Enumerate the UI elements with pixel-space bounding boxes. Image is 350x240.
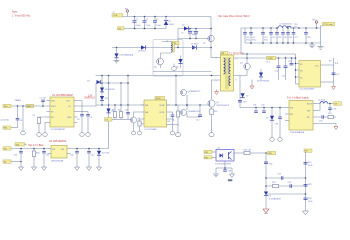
svg-text:C6: C6	[20, 120, 22, 122]
ground input	[114, 61, 120, 63]
svg-text:C27: C27	[294, 37, 297, 39]
svg-text:C26: C26	[289, 37, 292, 39]
wire fb rung 3	[266, 193, 306, 195]
wire input bus HV+	[123, 16, 212, 18]
diode D9	[266, 108, 274, 138]
svg-text:TP8: TP8	[335, 63, 338, 65]
wire T1 pri bottom to Q1	[212, 80, 221, 99]
ground Q1	[209, 133, 214, 137]
red agnd U7	[317, 124, 338, 130]
wire OUTB stub	[170, 125, 178, 127]
zener D11	[100, 88, 115, 92]
wire totem out	[187, 114, 200, 118]
svg-text:C39: C39	[288, 182, 291, 184]
svg-text:470u: 470u	[246, 40, 250, 42]
wire Q7 collector	[134, 112, 141, 117]
svg-text:C14: C14	[275, 71, 278, 73]
svg-text:VDRV: VDRV	[156, 98, 162, 100]
wire fb rail right	[305, 152, 307, 210]
tag VIN- left	[3, 126, 18, 130]
svg-text:D3: D3	[87, 81, 89, 83]
capacitor C30	[238, 101, 246, 104]
capacitor C1	[133, 17, 142, 29]
svg-text:OUTB: OUTB	[159, 112, 165, 114]
svg-text:C28: C28	[307, 37, 310, 39]
wire bias input row	[11, 148, 48, 150]
svg-text:C4: C4	[192, 31, 194, 33]
diode D4	[106, 109, 113, 113]
svg-text:US1M: US1M	[169, 24, 175, 26]
svg-text:OUTA: OUTA	[159, 104, 165, 107]
svg-text:Note:: Note:	[12, 11, 18, 14]
wire OUT pin	[78, 101, 83, 115]
svg-text:VDD: VDD	[51, 101, 56, 103]
gate drive wire	[167, 104, 210, 106]
svg-text:U1 UCC2897ARGP: U1 UCC2897ARGP	[52, 94, 73, 97]
svg-text:U2 LM5164DDA: U2 LM5164DDA	[49, 140, 67, 143]
connector J1	[112, 12, 123, 18]
wire totem pole	[186, 95, 188, 110]
svg-text:VB-: VB-	[4, 162, 7, 164]
junction fb node	[265, 152, 267, 154]
capacitor C3	[153, 17, 162, 29]
tag VBULK bias	[3, 147, 11, 151]
wire mid rail y83	[96, 82, 128, 84]
svg-text:C30: C30	[243, 102, 246, 104]
transformer T1	[216, 53, 246, 91]
svg-text:2.2uF: 2.2uF	[146, 25, 152, 27]
wire Q7 emitter	[133, 123, 135, 131]
ground C33	[278, 138, 283, 142]
svg-text:J2-1: J2-1	[266, 62, 270, 64]
svg-text:C43: C43	[91, 155, 94, 157]
resistor R25	[272, 182, 279, 187]
wire HV vertical rail	[210, 17, 212, 58]
ground U1 left b	[37, 133, 42, 137]
svg-text:1. Vmax 500 Vdc: 1. Vmax 500 Vdc	[12, 15, 31, 18]
svg-text:C35: C35	[319, 121, 322, 123]
svg-text:TP2: TP2	[118, 28, 121, 30]
wire opto emitter	[224, 161, 226, 168]
svg-text:0.1uF: 0.1uF	[136, 25, 142, 27]
wire fb rail left	[265, 153, 267, 209]
svg-text:C37: C37	[278, 174, 281, 176]
wire driver vdd riser	[175, 76, 177, 106]
IC U2 bias reg	[48, 146, 71, 163]
tag FB2	[204, 156, 216, 160]
IC U8 gate driver	[141, 96, 171, 130]
svg-text:D13 12V: D13 12V	[102, 153, 110, 155]
capacitor C17 vcc	[325, 65, 339, 82]
svg-text:C16: C16	[288, 61, 291, 63]
wire cs row	[112, 119, 128, 121]
resistor R23 divider	[304, 184, 312, 186]
svg-text:UCC27524AD: UCC27524AD	[145, 128, 158, 131]
ground V+ drop	[317, 44, 323, 49]
capacitor C27	[293, 28, 295, 33]
svg-text:TP3: TP3	[312, 20, 315, 22]
wire U6 left pins	[295, 58, 297, 84]
wire SS pin	[45, 123, 47, 133]
svg-text:VBIAS: VBIAS	[15, 99, 22, 102]
svg-text:D8 STPS3L60: D8 STPS3L60	[257, 81, 269, 83]
capacitor C28	[305, 28, 307, 33]
tag CS	[105, 118, 113, 122]
wire clamp mid	[178, 38, 209, 40]
transformer aux winding T2	[166, 41, 174, 52]
red agnd U6	[332, 82, 336, 90]
svg-text:D11 BZX84: D11 BZX84	[105, 89, 115, 91]
svg-text:D12: D12	[105, 98, 108, 100]
svg-text:5V0: 5V0	[334, 104, 337, 106]
svg-text:R5: R5	[112, 110, 114, 112]
svg-text:0-500 Vdc: 0-500 Vdc	[1, 120, 10, 122]
svg-text:TPS54560BDDA: TPS54560BDDA	[290, 131, 305, 134]
svg-text:R24: R24	[308, 198, 311, 200]
capacitor C37	[278, 174, 283, 180]
ground opto right	[228, 168, 235, 182]
transistor Q7	[128, 117, 140, 123]
wire riser x121	[120, 83, 122, 105]
capacitor C21	[250, 28, 252, 33]
svg-text:D7: D7	[246, 96, 248, 98]
svg-text:VIN-: VIN-	[4, 128, 8, 130]
testpoint TP1	[125, 9, 129, 17]
svg-text:SW: SW	[61, 149, 64, 151]
testpoint TP2	[118, 27, 125, 31]
svg-text:470u: 470u	[264, 40, 268, 42]
capacitor C25	[282, 28, 284, 33]
wire opto gnd row	[216, 167, 232, 169]
capacitor C12 gate	[196, 105, 202, 122]
ground U1 left c	[43, 133, 48, 137]
svg-text:CSD19506KCS: CSD19506KCS	[216, 105, 230, 107]
capacitor C7	[40, 98, 47, 107]
inductor L1	[278, 24, 292, 29]
wire gate row left	[96, 104, 144, 106]
svg-text:5V0: 5V0	[305, 151, 308, 153]
svg-text:D9: D9	[266, 118, 268, 120]
svg-text:10.0k: 10.0k	[308, 165, 313, 167]
wire fb rung 1	[266, 177, 306, 179]
svg-text:C1: C1	[136, 19, 138, 21]
svg-text:FB1: FB1	[205, 152, 208, 154]
zener D13	[97, 149, 110, 168]
capacitor C42	[70, 149, 79, 168]
svg-text:D10 SMAJ440A: D10 SMAJ440A	[120, 54, 134, 57]
svg-text:Q6 MMBT2907: Q6 MMBT2907	[188, 111, 201, 113]
ground U1 left a	[21, 106, 26, 135]
svg-text:Q4: Q4	[240, 63, 243, 65]
optocoupler U3	[215, 148, 234, 166]
diode D5	[188, 44, 211, 50]
diode D6 snubber	[176, 56, 183, 69]
svg-text:C8: C8	[77, 119, 79, 121]
wire aux top	[162, 42, 172, 44]
svg-text:VB+: VB+	[4, 148, 7, 150]
ground D9	[270, 138, 275, 142]
tag 5V0 sense	[304, 149, 312, 153]
wire U6 vcc rail	[325, 58, 334, 65]
tag VFB	[268, 151, 276, 155]
svg-text:470u: 470u	[252, 40, 256, 42]
transistor Q1 main switch	[208, 100, 230, 109]
red pgnd sync	[250, 80, 254, 90]
svg-text:CONN: CONN	[267, 58, 273, 60]
ground C11	[170, 131, 175, 135]
svg-text:VCC: VCC	[315, 65, 320, 67]
ground fb left red	[263, 209, 269, 214]
tag VIN left	[3, 104, 11, 108]
svg-text:C42: C42	[70, 155, 73, 157]
wire riser x128	[127, 76, 129, 106]
wire fb rung 2	[266, 185, 306, 187]
tag CONN secondary	[266, 56, 276, 63]
tag GD on box	[172, 42, 179, 46]
resistor R5	[112, 105, 117, 120]
svg-text:TP1: TP1	[125, 9, 128, 11]
junction dots input bus	[134, 16, 136, 18]
ground output rail	[309, 43, 315, 48]
ground R7	[137, 131, 142, 135]
svg-text:C5: C5	[181, 33, 183, 35]
tag VDD left	[26, 104, 34, 108]
svg-text:UVLO: UVLO	[51, 106, 57, 108]
svg-text:5-V, 1-A Bias Supply: 5-V, 1-A Bias Supply	[287, 97, 310, 100]
wire T1 pri top	[211, 57, 221, 59]
svg-text:C23: C23	[272, 37, 275, 39]
svg-text:U4: U4	[269, 196, 271, 198]
capacitor C14	[275, 58, 281, 80]
transistor Q6	[181, 110, 201, 116]
wire secondary to U7	[240, 107, 285, 109]
capacitor C10	[125, 105, 130, 120]
transistor Q3 snubber	[154, 53, 163, 69]
tag VB- bias	[3, 160, 11, 164]
capacitor C39	[288, 182, 292, 188]
wire bus left drop	[240, 28, 242, 54]
ground driver	[175, 133, 180, 137]
wire 5V out	[328, 103, 333, 105]
svg-text:SW: SW	[307, 111, 310, 113]
svg-text:C32: C32	[261, 105, 264, 107]
capacitor C26	[287, 28, 289, 33]
svg-text:TLP291(GB-TP,SE: TLP291(GB-TP,SE	[215, 163, 232, 165]
svg-text:D2: D2	[182, 25, 184, 27]
svg-text:C36: C36	[269, 164, 272, 166]
svg-text:R20: R20	[328, 113, 331, 115]
svg-text:UCC24612DBVR: UCC24612DBVR	[300, 89, 315, 91]
capacitor C35 fb	[317, 115, 326, 122]
svg-text:GD1: GD1	[16, 144, 20, 146]
red pgnd marker	[215, 90, 219, 95]
svg-text:C24: C24	[278, 37, 281, 39]
tag 5V	[334, 102, 342, 106]
svg-text:TP V+ conn: TP V+ conn	[323, 24, 332, 26]
svg-text:LM5164DDAR: LM5164DDAR	[51, 159, 64, 162]
IC U6 sync controller	[296, 61, 326, 91]
svg-text:C25: C25	[284, 37, 287, 39]
wire output bus	[241, 27, 278, 29]
wire vbias rail x108.5	[108, 76, 110, 149]
svg-text:1: 1	[216, 58, 217, 60]
capacitor C5 clamp	[181, 28, 198, 39]
wire INB stub	[170, 119, 174, 121]
wire sec rect node	[239, 76, 241, 108]
svg-text:R25: R25	[272, 182, 275, 184]
svg-text:J1: J1	[113, 12, 115, 14]
wire primary rail A	[153, 71, 212, 73]
svg-text:U3: U3	[217, 148, 219, 150]
ground snubber	[172, 64, 177, 71]
svg-text:C12: C12	[196, 120, 199, 122]
svg-text:2.2uF: 2.2uF	[156, 25, 162, 27]
wire VDD row	[11, 105, 47, 107]
svg-text:6: 6	[236, 59, 237, 61]
resistor R14	[177, 105, 180, 133]
IC U7 5V bias	[285, 101, 317, 134]
resistor R6	[118, 105, 123, 120]
svg-text:C38: C38	[228, 171, 231, 173]
capacitor C23	[270, 28, 272, 33]
testpoint TP3	[312, 20, 318, 29]
resistor R16	[234, 150, 266, 155]
svg-text:D1: D1	[169, 21, 171, 23]
diode D1	[164, 17, 174, 29]
svg-text:R16 1.0k: R16 1.0k	[244, 150, 252, 152]
tag V+ output	[323, 22, 335, 26]
resistor R24 divider	[304, 198, 313, 203]
svg-text:Q5 MMBT2222: Q5 MMBT2222	[188, 91, 201, 93]
diode D8	[257, 69, 269, 83]
wire sync fet branch	[246, 58, 248, 63]
transistor Q4 sync	[240, 63, 250, 76]
svg-text:C11: C11	[167, 121, 170, 123]
svg-text:12V: 12V	[88, 95, 93, 98]
resistor R7	[138, 119, 144, 131]
resistor R2	[33, 115, 47, 133]
svg-text:8: 8	[236, 80, 237, 82]
wire V+ drop	[320, 28, 322, 44]
ground opto left	[213, 168, 219, 177]
resistor R22 divider	[304, 162, 313, 167]
capacitor C41	[42, 149, 49, 168]
zener D2	[182, 25, 188, 31]
svg-text:R2: R2	[33, 115, 35, 117]
capacitor C24	[276, 28, 278, 33]
wire input return rail	[124, 28, 166, 30]
svg-text:R22: R22	[308, 162, 311, 164]
wire bias return	[11, 161, 21, 163]
IC U1 main controller	[47, 94, 78, 131]
svg-text:L2 10uH: L2 10uH	[318, 100, 326, 102]
ground C8	[80, 133, 85, 137]
svg-text:R6: R6	[118, 110, 120, 112]
svg-text:L1 7443551111: L1 7443551111	[279, 24, 292, 26]
diode D7	[241, 93, 249, 97]
wire vdd rail x102	[101, 76, 103, 106]
capacitor C22	[262, 28, 264, 33]
output bus capacitor bank	[243, 27, 310, 43]
svg-text:C33: C33	[275, 124, 278, 126]
tag PRI	[221, 52, 229, 56]
svg-text:C31: C31	[253, 105, 256, 107]
svg-text:GND: GND	[67, 117, 72, 119]
svg-text:C17: C17	[336, 74, 339, 76]
capacitor C20	[244, 28, 246, 33]
wire secondary node link	[241, 53, 296, 55]
capacitor C43	[87, 149, 94, 168]
transistor Q2 clamp	[203, 35, 214, 44]
svg-text:R7: R7	[142, 124, 144, 126]
resistor R30	[32, 149, 39, 168]
capacitor C32	[261, 105, 266, 113]
wire Q1 source	[211, 115, 213, 133]
capacitor C2	[143, 17, 152, 29]
capacitor C11	[167, 112, 174, 131]
svg-text:C3: C3	[156, 19, 158, 21]
svg-text:10.0k: 10.0k	[308, 201, 313, 203]
zener D12	[100, 96, 108, 100]
ground bias row	[19, 167, 102, 171]
capacitor C4 clamp	[188, 29, 198, 39]
diode D3b	[87, 80, 101, 84]
capacitor C6	[16, 106, 23, 128]
svg-text:R23: R23	[308, 184, 311, 186]
diode D10 TVS	[114, 48, 133, 61]
svg-text:3: 3	[216, 81, 217, 83]
ground C9	[86, 133, 91, 137]
svg-text:D5 ES1J: D5 ES1J	[191, 44, 199, 46]
capacitor C40	[14, 149, 23, 168]
svg-text:R13: R13	[214, 111, 217, 113]
svg-text:UCC2897ARGPT: UCC2897ARGPT	[51, 128, 67, 131]
snubber option box	[153, 40, 183, 77]
capacitor C16	[288, 58, 294, 65]
svg-text:C2: C2	[146, 19, 148, 21]
svg-text:VIN+: VIN+	[4, 106, 8, 108]
wire EN riser	[78, 83, 97, 106]
svg-text:Opt. Gate Drive Circuit, 500-V: Opt. Gate Drive Circuit, 500-V	[218, 15, 250, 18]
transistor Q5	[181, 90, 201, 96]
resistor R20 fb	[326, 113, 336, 119]
ground fb right	[303, 210, 309, 215]
svg-text:R30: R30	[36, 153, 39, 155]
junction dots output bus	[250, 27, 252, 29]
resistor R13 sense	[210, 109, 218, 115]
wire output return rail	[245, 42, 321, 44]
wire bulk rail	[112, 47, 188, 49]
svg-text:C10: C10	[125, 110, 128, 112]
svg-text:100pF: 100pF	[192, 34, 198, 36]
svg-text:BOOT: BOOT	[307, 104, 313, 106]
svg-text:Q3: Q3	[154, 67, 157, 69]
capacitor C36 series	[264, 162, 272, 166]
TL431 U4	[264, 192, 282, 201]
inductor L2	[317, 100, 328, 111]
wire bias output row	[71, 148, 109, 150]
ground Q7	[131, 131, 136, 135]
wire snubber internal	[161, 52, 172, 54]
svg-text:GND: GND	[228, 180, 233, 182]
capacitor C8	[77, 115, 84, 133]
capacitor C9	[78, 112, 92, 133]
svg-text:C7 1uF: C7 1uF	[40, 98, 47, 100]
capacitor C33	[275, 108, 282, 138]
svg-text:C34: C34	[333, 109, 336, 111]
svg-text:Opt. 12-V Bias: Opt. 12-V Bias	[28, 144, 44, 147]
wire clamp top	[178, 28, 211, 30]
